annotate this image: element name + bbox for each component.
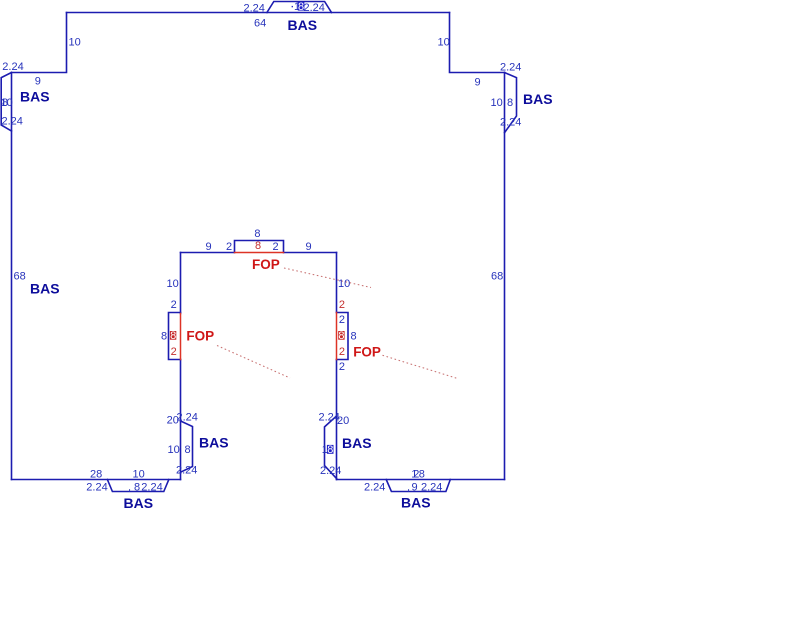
window BAS bottom-left trapezoid <box>107 480 168 492</box>
svg-text:10: 10 <box>491 97 503 109</box>
svg-text:2.24: 2.24 <box>364 482 385 494</box>
svg-text:2.24: 2.24 <box>176 465 197 477</box>
svg-text:68: 68 <box>491 271 503 283</box>
svg-text:2: 2 <box>339 314 345 326</box>
svg-text:2.24: 2.24 <box>86 481 107 493</box>
svg-text:2.24: 2.24 <box>421 481 442 493</box>
svg-text:,: , <box>407 481 410 493</box>
svg-text:,: , <box>128 481 131 493</box>
svg-text:8: 8 <box>161 331 167 343</box>
svg-text:FOP: FOP <box>252 257 280 272</box>
svg-text:8: 8 <box>255 240 261 252</box>
wire inner notch left leg lower <box>180 360 182 480</box>
svg-text:BAS: BAS <box>288 17 318 33</box>
opening FOP top red line <box>235 252 284 254</box>
wire inner notch right leg upper <box>336 253 338 313</box>
svg-text:28: 28 <box>90 469 102 481</box>
svg-text:8: 8 <box>185 444 191 456</box>
svg-text:2.24: 2.24 <box>500 62 521 74</box>
svg-text:10: 10 <box>167 278 179 290</box>
wire outer wall top-right step <box>450 13 505 73</box>
svg-text:FOP: FOP <box>186 328 214 343</box>
svg-text:8: 8 <box>419 469 425 481</box>
svg-text:9: 9 <box>206 241 212 253</box>
svg-text:68: 68 <box>14 271 26 283</box>
label dot top window inner <box>292 6 293 7</box>
wire outer wall bottom-left <box>12 479 181 481</box>
leader line FOP left <box>217 346 290 379</box>
svg-text:2.24: 2.24 <box>2 61 23 73</box>
window BAS right trapezoid <box>505 73 517 133</box>
wire inner notch top wall right part <box>284 252 337 254</box>
svg-text:2: 2 <box>339 346 345 358</box>
svg-text:10: 10 <box>69 37 81 49</box>
svg-text:9: 9 <box>475 77 481 89</box>
leader line FOP right <box>383 355 459 378</box>
svg-text:10: 10 <box>438 37 450 49</box>
svg-text:64: 64 <box>254 18 266 30</box>
svg-text:BAS: BAS <box>30 281 60 297</box>
svg-text:BAS: BAS <box>401 495 431 511</box>
svg-text:9: 9 <box>35 75 41 87</box>
svg-text:10: 10 <box>133 469 145 481</box>
svg-text:8: 8 <box>351 331 357 343</box>
svg-text:8: 8 <box>338 330 344 342</box>
opening FOP left red line <box>180 314 182 360</box>
svg-text:BAS: BAS <box>199 435 229 451</box>
svg-text:BAS: BAS <box>523 91 553 107</box>
svg-text:BAS: BAS <box>342 435 372 451</box>
svg-text:2: 2 <box>171 346 177 358</box>
window BAS right leg trapezoid <box>325 416 337 479</box>
svg-text:FOP: FOP <box>353 344 381 359</box>
svg-text:8: 8 <box>327 444 333 456</box>
svg-text:2: 2 <box>339 299 345 311</box>
svg-text:2: 2 <box>273 241 279 253</box>
svg-text:20: 20 <box>337 415 349 427</box>
wire outer wall right <box>504 73 506 480</box>
window bump FOP right leg <box>337 313 349 360</box>
svg-text:9: 9 <box>306 241 312 253</box>
svg-text:2.24: 2.24 <box>320 465 341 477</box>
svg-text:2.24: 2.24 <box>244 3 265 15</box>
svg-text:2.24: 2.24 <box>177 412 198 424</box>
svg-text:2.24: 2.24 <box>2 116 23 128</box>
highlight box right leg <box>338 331 344 340</box>
window BAS top trapezoid <box>267 2 332 13</box>
svg-text:9: 9 <box>412 481 418 493</box>
leader line FOP top <box>284 268 371 288</box>
opening FOP right red line <box>336 313 338 360</box>
window BAS left trapezoid <box>1 73 11 132</box>
svg-text:8: 8 <box>134 481 140 493</box>
wire outer wall bottom-right <box>337 479 505 481</box>
window bump FOP top <box>235 241 284 253</box>
svg-text:BAS: BAS <box>20 89 50 105</box>
svg-text:2: 2 <box>226 241 232 253</box>
wire inner notch left leg upper <box>180 253 182 314</box>
svg-text:10: 10 <box>168 444 180 456</box>
svg-text:2.24: 2.24 <box>304 2 325 14</box>
svg-text:8: 8 <box>254 228 260 240</box>
window BAS left leg trapezoid <box>181 421 193 472</box>
window bump FOP left leg <box>169 313 181 360</box>
highlight box top window <box>298 2 305 11</box>
svg-text:2: 2 <box>339 361 345 373</box>
svg-text:2: 2 <box>171 299 177 311</box>
svg-text:8: 8 <box>170 330 176 342</box>
wire outer wall top <box>67 12 450 14</box>
wire outer wall top-left step <box>12 13 67 73</box>
svg-text:BAS: BAS <box>124 495 154 511</box>
wire inner notch top wall left part <box>181 252 235 254</box>
svg-text:10: 10 <box>1 97 13 109</box>
window BAS bottom-right trapezoid <box>386 480 450 492</box>
svg-text:2.24: 2.24 <box>141 481 162 493</box>
svg-text:10: 10 <box>338 278 350 290</box>
highlight box left leg <box>170 331 176 340</box>
highlight box right leg window <box>327 445 334 454</box>
svg-text:2.24: 2.24 <box>500 117 521 129</box>
wire outer wall left <box>11 73 13 480</box>
wire inner notch right leg lower <box>336 360 338 480</box>
svg-text:8: 8 <box>507 97 513 109</box>
